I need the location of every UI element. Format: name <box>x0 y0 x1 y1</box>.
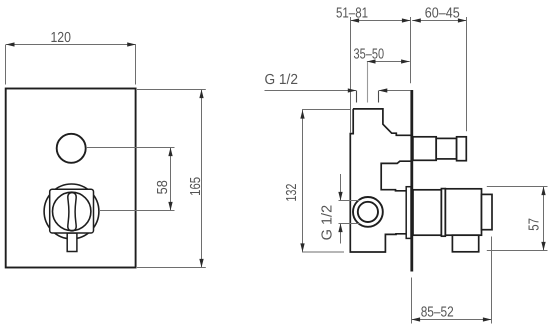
knob face circle <box>52 192 90 230</box>
dim 58 leader top (from button) <box>86 147 175 149</box>
knob grip <box>68 193 76 231</box>
dim 85-52 left extension <box>411 278 413 324</box>
dim 120 extension left <box>5 45 7 85</box>
svg-text:G 1/2: G 1/2 <box>320 205 336 241</box>
top connector end cap <box>457 137 467 161</box>
dim 132 bottom extension <box>302 251 344 253</box>
dim 58 text <box>155 180 171 194</box>
dim 85-52 arrow left <box>412 317 421 321</box>
dim 35-50 line <box>367 61 410 63</box>
svg-text:51–81: 51–81 <box>336 6 368 22</box>
knob square plate <box>50 189 94 233</box>
dim 85-52 right extension <box>491 237 493 324</box>
G 1/2 side arrow line top <box>340 174 342 201</box>
dim 60-45 arrow left <box>412 18 421 22</box>
button circle <box>57 134 86 163</box>
G 1/2 side text <box>320 205 336 241</box>
dim 57 arrow top <box>541 187 545 196</box>
dim 120 extension right <box>135 45 137 85</box>
dim 132 arrow bottom <box>300 243 304 252</box>
svg-text:132: 132 <box>284 184 300 202</box>
svg-text:35–50: 35–50 <box>354 46 385 62</box>
dim 165 line <box>201 90 203 268</box>
dim 35-50 center extension <box>367 62 369 103</box>
G 1/2 side arrow bottom <box>338 224 342 233</box>
knob stem <box>67 233 77 252</box>
top connector segment 1 <box>413 137 436 161</box>
side port outer circle <box>353 197 383 227</box>
dim 120 line <box>6 44 136 46</box>
dim 132 arrow top <box>300 110 304 119</box>
G 1/2 side tick top <box>339 200 360 202</box>
dim 57 line <box>543 187 545 251</box>
side port inner circle <box>358 202 378 222</box>
dim 132 top extension <box>302 109 351 111</box>
dim 85-52 line <box>412 319 492 321</box>
svg-text:57: 57 <box>527 218 543 231</box>
dim 58 arrow top <box>168 148 172 157</box>
body upper outline <box>353 109 411 135</box>
bottom housing ring <box>441 189 445 237</box>
bottom housing cap <box>482 194 493 229</box>
G 1/2 top arrow right <box>379 88 388 92</box>
knob back circle <box>44 184 99 239</box>
dim 165 extension bottom <box>137 267 206 269</box>
dim 35-50 arrow right <box>401 59 410 63</box>
dim 60-45 right extension <box>466 17 468 131</box>
wall line <box>410 90 413 272</box>
dim 51-81 left extension <box>350 17 352 133</box>
bottom housing segment B <box>445 189 481 235</box>
top port wall left <box>356 91 358 103</box>
dim 60-45 line <box>412 20 466 22</box>
svg-text:120: 120 <box>50 30 71 46</box>
body mid outline <box>381 161 410 191</box>
dim 51-81 arrow right <box>402 18 411 22</box>
dim 120 arrow left <box>6 42 15 46</box>
dim 58 arrow bottom <box>168 202 172 211</box>
front plate <box>6 89 136 268</box>
dim 120 arrow right <box>127 42 136 46</box>
dim 132 line <box>302 110 304 253</box>
dim 57 top extension <box>487 186 548 188</box>
dim 165 extension top <box>137 89 206 91</box>
G 1/2 top leader right <box>379 90 410 92</box>
svg-text:58: 58 <box>155 180 171 194</box>
svg-text:G 1/2: G 1/2 <box>264 72 298 88</box>
dim 57 text <box>527 218 543 231</box>
dim 60-45 arrow right <box>458 18 467 22</box>
dim 57 arrow bottom <box>541 242 545 251</box>
dim 85-52 arrow right <box>483 317 492 321</box>
dim 51-81 line <box>351 20 411 22</box>
top connector segment 2 <box>436 138 456 159</box>
bottom housing stub <box>452 235 478 252</box>
dim 51-81 / 60-45 shared extension <box>410 17 412 83</box>
dim 165 arrow top <box>199 90 203 99</box>
dim 51-81 arrow left <box>351 18 360 22</box>
dim 165 arrow bottom <box>199 259 203 268</box>
G 1/2 side arrow top <box>338 192 342 201</box>
body lower-left outline <box>350 109 406 252</box>
svg-text:85–52: 85–52 <box>421 305 454 321</box>
dim 58 line <box>170 148 172 211</box>
dim 165 text <box>188 177 204 196</box>
G 1/2 top arrow left <box>348 88 357 92</box>
dim 132 text <box>284 184 300 202</box>
dim 57 bottom extension <box>487 250 548 252</box>
bottom housing segment A <box>413 190 441 235</box>
G 1/2 top leader left <box>265 90 357 92</box>
G 1/2 side tick bottom <box>339 223 360 225</box>
dim 58 leader bottom (from knob) <box>99 210 175 212</box>
svg-text:60–45: 60–45 <box>425 6 460 22</box>
G 1/2 side arrow line bottom <box>340 224 342 244</box>
top port wall right <box>378 91 380 103</box>
flange at wall <box>406 187 411 239</box>
dim 35-50 arrow left <box>367 59 376 63</box>
svg-text:165: 165 <box>188 177 204 196</box>
